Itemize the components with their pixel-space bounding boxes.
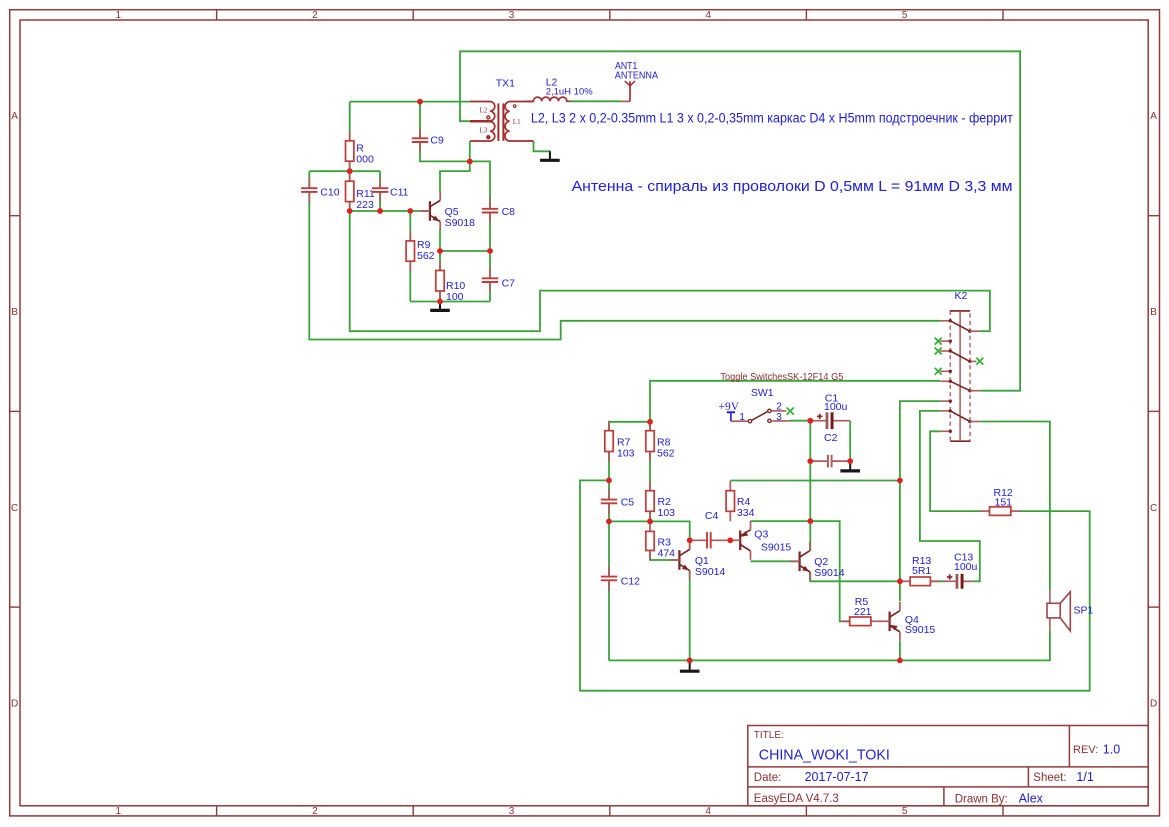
svg-text:ANTENNA: ANTENNA — [615, 69, 658, 81]
svg-text:C10: C10 — [320, 186, 339, 198]
resistor R11 — [346, 171, 375, 211]
svg-text:Sheet:: Sheet: — [1033, 772, 1066, 784]
svg-text:CHINA_WOKI_TOKI: CHINA_WOKI_TOKI — [759, 747, 890, 764]
resistor R13 — [900, 555, 940, 585]
svg-text:C: C — [11, 503, 18, 514]
transistor Q5 — [420, 192, 475, 231]
svg-text:1/1: 1/1 — [1076, 770, 1093, 784]
svg-text:TX1: TX1 — [496, 78, 515, 90]
antenna ANT1 — [615, 60, 658, 101]
svg-text:S9018: S9018 — [445, 217, 476, 229]
wire antenna feed — [570, 100, 621, 102]
wire Q5 collector path — [440, 161, 470, 192]
wire R9 column — [409, 211, 411, 302]
wire Q5 base row — [350, 210, 430, 212]
switch SW1 — [731, 387, 794, 423]
svg-text:100u: 100u — [824, 401, 848, 413]
svg-text:C9: C9 — [430, 135, 444, 147]
wire ground rail — [609, 631, 1050, 660]
annotation coil winding note — [531, 110, 1013, 125]
svg-text:4: 4 — [705, 10, 711, 21]
wire mid row — [440, 250, 490, 252]
transistor Q2 — [790, 542, 845, 581]
svg-text:Антенна - спираль из проволоки: Антенна - спираль из проволоки D 0,5мм L… — [572, 178, 1013, 195]
svg-text:2: 2 — [312, 806, 318, 817]
svg-text:334: 334 — [737, 507, 755, 519]
resistor R5 — [840, 596, 881, 625]
capacitor C2 — [810, 432, 850, 467]
capacitor C11 — [372, 178, 409, 203]
wire supply column — [809, 421, 811, 551]
resistor R10 — [436, 261, 466, 303]
wire K2 arm4 to speaker — [980, 422, 1050, 591]
wire TX1 L1 to ground — [534, 141, 550, 158]
svg-text:D: D — [11, 699, 18, 710]
svg-text:Toggle SwitchesSK-12F14 G5: Toggle SwitchesSK-12F14 G5 — [720, 372, 843, 383]
svg-text:REV:: REV: — [1073, 744, 1098, 756]
wire RF loop TX1 mid-tap to K2 arm1 top — [460, 51, 1020, 390]
resistor R7 — [605, 421, 635, 462]
svg-text:562: 562 — [417, 250, 435, 262]
wire Q1 collector stub — [689, 540, 691, 550]
wire TX1 L3 lead down — [469, 141, 471, 161]
wire R11 column — [349, 171, 351, 211]
wire R column — [349, 102, 351, 172]
wire R2 bottom row — [609, 521, 690, 540]
transistor Q4 — [880, 602, 936, 641]
capacitor C10 — [301, 178, 340, 203]
wire K2 pin6 column — [900, 401, 940, 581]
svg-text:C12: C12 — [621, 576, 640, 588]
wire C8 C7 column — [470, 161, 490, 301]
wire Q2 emitter down — [810, 572, 900, 582]
svg-text:3: 3 — [509, 10, 515, 21]
inductor L2 — [525, 77, 593, 102]
svg-text:S9014: S9014 — [814, 567, 845, 579]
wire Q4 collector down — [899, 641, 901, 660]
capacitor C8 — [482, 198, 515, 223]
svg-text:+9V: +9V — [719, 401, 740, 413]
svg-text:3: 3 — [776, 412, 782, 423]
resistor R — [346, 131, 374, 171]
wire Q3 collector to Q2 base — [751, 560, 800, 562]
svg-text:EasyEDA V4.7.3: EasyEDA V4.7.3 — [754, 793, 839, 805]
wire R13 row — [930, 580, 945, 582]
svg-text:223: 223 — [356, 199, 374, 211]
annotation toggle switch note — [720, 372, 843, 383]
svg-text:Date:: Date: — [754, 772, 782, 784]
svg-text:Q3: Q3 — [754, 529, 768, 541]
ground C2 — [840, 461, 860, 471]
capacitor C7 — [482, 268, 515, 293]
wire top rail — [350, 101, 470, 103]
capacitor C1 — [810, 392, 850, 429]
svg-text:L3: L3 — [480, 126, 488, 134]
wire Q5 emitter R10 column — [439, 230, 441, 302]
svg-text:5: 5 — [902, 806, 908, 817]
svg-text:S9014: S9014 — [695, 566, 726, 578]
svg-text:C4: C4 — [705, 510, 719, 522]
svg-text:SW1: SW1 — [751, 387, 774, 399]
svg-text:000: 000 — [356, 154, 374, 166]
ground emitter rail — [430, 302, 450, 311]
svg-text:1.0: 1.0 — [1103, 742, 1120, 756]
ground TX1 — [540, 151, 560, 160]
capacitor C4 — [690, 510, 731, 548]
svg-text:L2: L2 — [480, 107, 488, 115]
resistor R3 — [646, 521, 675, 560]
svg-text:1: 1 — [739, 412, 745, 423]
svg-text:2017-07-17: 2017-07-17 — [805, 770, 869, 784]
svg-text:562: 562 — [657, 447, 675, 459]
wire emitter rail — [410, 301, 490, 303]
wire SW1 to node — [790, 420, 811, 422]
svg-text:C2: C2 — [824, 432, 838, 444]
wire R8 R2 column — [649, 422, 651, 522]
wire Q4 emitter stub — [899, 581, 901, 601]
svg-text:4: 4 — [705, 806, 711, 817]
svg-text:100u: 100u — [954, 561, 978, 573]
wire R7 column — [608, 422, 610, 481]
svg-text:SP1: SP1 — [1074, 604, 1094, 616]
wire C10 column to K2 pin1 — [309, 171, 940, 339]
svg-text:1: 1 — [116, 806, 122, 817]
svg-text:D: D — [1150, 699, 1157, 710]
svg-text:TITLE:: TITLE: — [754, 730, 784, 741]
wire left bottom loop to R12 — [580, 480, 1090, 690]
svg-text:221: 221 — [854, 606, 872, 618]
wire K2 pin8 to R12 — [930, 431, 980, 511]
speaker SP1 — [1047, 590, 1094, 631]
svg-text:1: 1 — [116, 10, 122, 21]
wire C9 column — [420, 102, 470, 162]
capacitor C12 — [601, 566, 640, 591]
svg-text:S9015: S9015 — [761, 542, 792, 554]
annotation antenna note — [572, 178, 1013, 195]
svg-text:L1: L1 — [513, 118, 521, 126]
connector K2 — [935, 290, 984, 441]
capacitor C13 — [943, 552, 978, 589]
title block texts — [754, 730, 1120, 806]
svg-text:5R1: 5R1 — [912, 565, 931, 577]
wire C5 C12 column — [608, 480, 610, 660]
wire Q3 emitter row — [751, 520, 811, 522]
resistor R4 — [726, 481, 754, 522]
capacitor C9 — [412, 128, 444, 153]
resistor R12 — [980, 487, 1021, 515]
svg-text:L2, L3 2 x 0,2-0.35mm L1 3 x 0: L2, L3 2 x 0,2-0.35mm L1 3 x 0,2-0,35mm … — [531, 110, 1013, 125]
transformer TX1 — [470, 78, 534, 141]
svg-text:C8: C8 — [502, 206, 516, 218]
wire C13 to K2 pin7 — [920, 411, 980, 581]
ground Q1 rail — [680, 660, 700, 671]
svg-text:103: 103 — [658, 507, 676, 519]
wire toggle rail — [650, 381, 940, 422]
wire C11 column — [379, 171, 381, 211]
svg-text:S9015: S9015 — [905, 624, 936, 636]
svg-text:Drawn By:: Drawn By: — [955, 793, 1008, 805]
svg-text:C11: C11 — [390, 186, 409, 198]
svg-text:2,1uH 10%: 2,1uH 10% — [546, 87, 594, 98]
wire R3 to Q1 base — [650, 551, 679, 561]
resistor R8 — [646, 421, 675, 462]
svg-text:A: A — [1150, 111, 1157, 122]
svg-text:B: B — [11, 307, 18, 318]
svg-text:K2: K2 — [955, 290, 968, 302]
wire node to R5 — [810, 521, 849, 621]
svg-text:C: C — [1150, 503, 1157, 514]
power +9V — [719, 401, 740, 421]
svg-text:5: 5 — [902, 10, 908, 21]
svg-text:A: A — [11, 111, 18, 122]
wire node bias row — [309, 170, 380, 172]
wire R7 R8 top row — [609, 421, 650, 423]
title block — [748, 726, 1148, 806]
wire C1 right down — [849, 421, 851, 461]
svg-text:3: 3 — [509, 806, 515, 817]
transistor Q3 — [730, 521, 791, 560]
svg-text:474: 474 — [658, 548, 676, 560]
svg-text:151: 151 — [995, 496, 1013, 508]
resistor R9 — [406, 231, 435, 271]
resistor R2 — [646, 481, 675, 522]
wire R4 top row — [730, 480, 900, 482]
wire Q1 emitter down — [689, 571, 691, 661]
svg-text:Alex: Alex — [1019, 791, 1044, 805]
svg-text:103: 103 — [617, 447, 635, 459]
transistor Q1 — [669, 541, 725, 580]
capacitor C5 — [601, 489, 634, 514]
svg-text:B: B — [1150, 307, 1157, 318]
wire R11 junction to K2 arm1 — [350, 211, 990, 331]
svg-text:C5: C5 — [621, 497, 635, 509]
svg-text:C7: C7 — [502, 277, 516, 289]
svg-text:2: 2 — [312, 10, 318, 21]
svg-text:100: 100 — [446, 291, 464, 303]
